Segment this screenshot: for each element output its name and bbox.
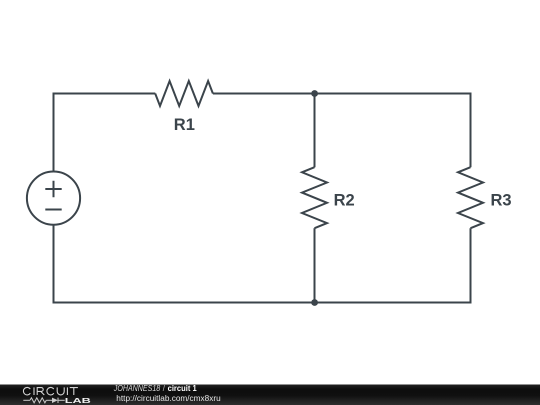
voltage source V1 — [27, 172, 80, 225]
svg-text:LAB: LAB — [65, 396, 92, 405]
svg-text:circuit 1: circuit 1 — [168, 384, 198, 393]
footer bar — [0, 384, 540, 405]
wire: R1 right terminal to node A — [213, 93, 315, 95]
node A junction dot — [311, 90, 318, 97]
wire: node A to top of R3 — [315, 94, 471, 168]
wire: node B along bottom and up to V1 negative terminal — [54, 225, 315, 303]
resistor R1 — [155, 81, 213, 106]
CircuitLab logo word CIRCUIT (outlined) — [23, 387, 77, 395]
wire: R3 bottom terminal left along bottom to node B — [315, 228, 471, 302]
svg-text:JOHANNES18: JOHANNES18 — [113, 384, 161, 393]
resistor R3 — [458, 167, 483, 228]
svg-text:R1: R1 — [174, 116, 195, 134]
svg-text:http://circuitlab.com/cmx8xru: http://circuitlab.com/cmx8xru — [116, 394, 220, 403]
wire: R2 bottom terminal to node B — [314, 228, 316, 302]
CircuitLab logo tagline wire with resistor and diode — [23, 398, 64, 403]
svg-text:R2: R2 — [334, 192, 355, 210]
node B junction dot — [311, 299, 318, 306]
wire: node A down to top of R2 — [314, 94, 316, 168]
CircuitLab logo diode triangle — [52, 398, 58, 403]
svg-text:R3: R3 — [491, 192, 512, 210]
resistor R2 — [302, 167, 327, 228]
wire: V1 positive terminal up and across to R1 left terminal — [54, 94, 156, 172]
